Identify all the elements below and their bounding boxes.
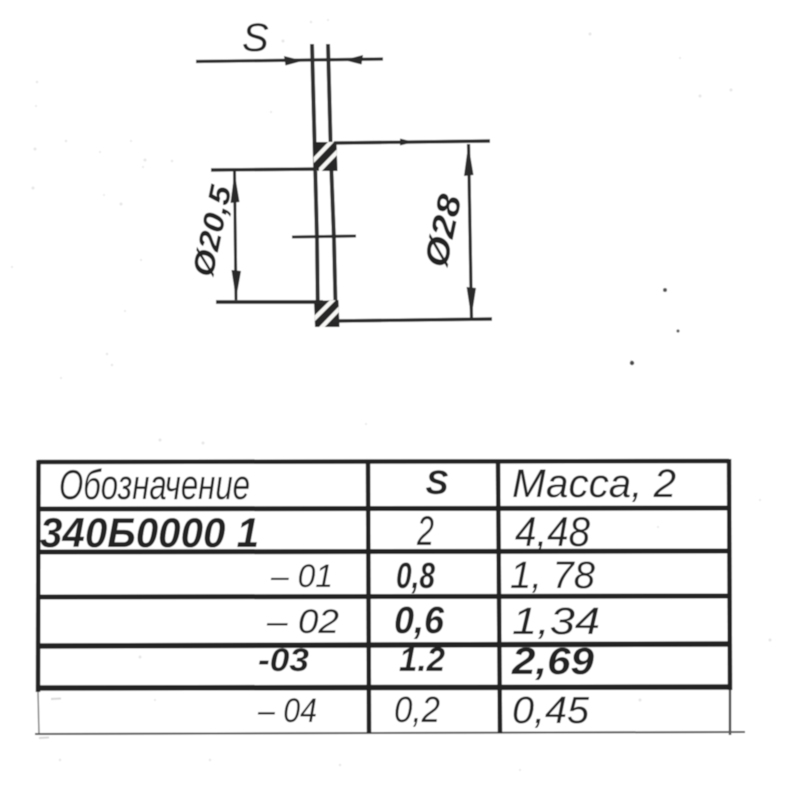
svg-text:1.2: 1.2 [399,641,445,679]
arrowhead d28 down [467,287,476,318]
svg-text:340Б0000 1: 340Б0000 1 [40,509,259,556]
svg-text:Обозначение: Обозначение [59,461,250,508]
extension line bottom for d28 [333,319,492,321]
svg-text:S: S [242,16,269,60]
table row line 2 [38,551,729,552]
table column divider 1 [368,462,369,733]
svg-text:– 01: – 01 [270,558,333,594]
hatched section top (cut material) [308,141,340,174]
scan speck 2 [676,329,679,332]
dimension line S [196,59,383,62]
table column divider 2 [498,462,500,733]
faint mark below table corner [39,737,49,740]
dimension line d20,5 [235,171,237,300]
svg-text:2,69: 2,69 [511,641,594,683]
svg-text:– 02: – 02 [266,603,339,641]
washer section left outline (extension of S) [312,44,318,325]
table outer border right thin lower part [729,690,731,735]
table outer border top [38,461,729,462]
extension line bottom for d20,5 [216,300,323,304]
svg-text:1, 78: 1, 78 [510,555,595,597]
table outer border left thin lower part [38,692,39,734]
svg-text:0,6: 0,6 [394,600,445,642]
scan speck 3 [630,361,634,365]
svg-text:– 04: – 04 [257,692,317,730]
scan speck 1 [663,288,667,292]
washer section right outline [328,44,336,326]
svg-text:0,2: 0,2 [394,689,440,730]
svg-text:Масса, 2: Масса, 2 [512,462,676,506]
table outer border right [729,459,730,690]
arrowhead S right [344,55,363,65]
arrowhead d20,5 up [231,172,240,203]
faint pencil dash inside last row [51,698,61,701]
extension line top for d28 [334,141,490,143]
centre line of washer [292,236,356,237]
arrowhead S left [284,56,303,66]
svg-text:2: 2 [416,507,434,554]
arrowhead d28 up [464,144,474,176]
dimension line d28 [469,144,472,318]
svg-text:1,34: 1,34 [512,601,600,643]
arrowhead d20,5 down [232,270,242,299]
svg-text:S: S [426,464,449,502]
extension line top for d20,5 [211,169,319,170]
svg-text:0,8: 0,8 [396,555,435,596]
table row line 4 [38,644,729,646]
table row line 3 [38,596,729,597]
svg-text:4,48: 4,48 [515,508,591,555]
svg-text:-03: -03 [258,642,309,678]
svg-text:0,45: 0,45 [512,690,590,732]
table row line under header [38,508,729,509]
table outer border left [36,460,41,692]
tick arrow on top extension line [400,139,414,146]
table row line 5 [38,687,729,688]
table bottom thin line [35,732,745,734]
hatched section bottom (cut material) [309,299,342,331]
